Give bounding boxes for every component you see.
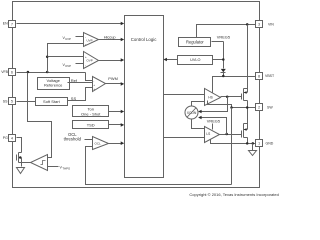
voltage reference box bbox=[38, 78, 70, 90]
svg-text:Hiccup: Hiccup bbox=[104, 34, 116, 39]
svg-text:One - Shot: One - Shot bbox=[81, 111, 101, 116]
wire SS to PWM comparator bbox=[68, 88, 93, 102]
svg-text:Regulator: Regulator bbox=[186, 39, 204, 44]
wire LS output to gate bbox=[220, 134, 242, 136]
svg-text:5: 5 bbox=[11, 99, 13, 103]
op-amp PWM comparator bbox=[93, 77, 106, 92]
svg-text:OVP: OVP bbox=[86, 59, 92, 63]
node VFB branch junction bbox=[27, 71, 30, 74]
svg-text:-: - bbox=[85, 63, 86, 67]
svg-text:GND: GND bbox=[266, 142, 274, 146]
wire XCON upper sense bbox=[198, 97, 227, 114]
svg-text:threshold: threshold bbox=[64, 136, 82, 141]
svg-text:1: 1 bbox=[258, 141, 260, 145]
soft start box bbox=[36, 98, 68, 106]
wire VTHPG label to comparator bbox=[48, 165, 71, 170]
node GND-LS source junction bbox=[246, 142, 249, 145]
svg-text:THPG: THPG bbox=[62, 167, 70, 171]
svg-text:2: 2 bbox=[258, 105, 260, 109]
wire control to HS driver bbox=[164, 94, 205, 96]
wire Hiccup UVP output to Control Logic bbox=[99, 34, 125, 41]
op-amp UVP comparator bbox=[84, 33, 99, 47]
pin GND (1) bbox=[256, 140, 274, 147]
wire riser to OVP bbox=[48, 56, 84, 58]
svg-text:4: 4 bbox=[11, 136, 13, 140]
wire SS pin to Soft Start bbox=[17, 101, 36, 103]
op-amp OCL comparator bbox=[93, 137, 109, 150]
wire VFB riser to UVP bbox=[48, 44, 84, 73]
pin PG (4) bbox=[3, 135, 16, 142]
svg-text:Copyright © 2016, Texas Instru: Copyright © 2016, Texas Instruments Inco… bbox=[189, 192, 278, 197]
node HS gate junction bbox=[226, 96, 229, 99]
svg-text:8: 8 bbox=[258, 74, 260, 78]
svg-text:PG: PG bbox=[3, 136, 8, 140]
svg-text:PWM: PWM bbox=[108, 76, 118, 81]
svg-text:VBST: VBST bbox=[265, 74, 275, 78]
node GND symbol junction bbox=[252, 142, 255, 145]
Ton one-shot box bbox=[73, 106, 109, 117]
transistor HS FET bbox=[242, 89, 248, 108]
wire PWM output to Control Logic bbox=[106, 76, 125, 86]
wire OCL to Control Logic bbox=[109, 141, 125, 145]
svg-text:VFB: VFB bbox=[1, 70, 8, 74]
svg-text:UVP: UVP bbox=[65, 37, 71, 41]
diode bootstrap bbox=[221, 69, 226, 77]
svg-text:6: 6 bbox=[11, 70, 13, 74]
node VFB riser junction bbox=[46, 71, 49, 74]
op-amp HS driver bbox=[205, 89, 221, 106]
svg-text:3: 3 bbox=[258, 22, 260, 26]
wire HS output to gate bbox=[221, 96, 242, 98]
pin VIN (3) bbox=[256, 21, 275, 28]
copyright bbox=[189, 192, 278, 197]
label VUVP bbox=[63, 36, 84, 41]
ground symbol below GND pin bbox=[249, 144, 257, 156]
node riser-OVP junction bbox=[46, 55, 49, 58]
TSD box bbox=[73, 121, 109, 129]
wire Ton to Control Logic bbox=[109, 110, 125, 114]
transistor LS FET bbox=[242, 108, 248, 144]
wire PG comparator output to FET gate bbox=[22, 162, 31, 164]
svg-text:Reference: Reference bbox=[44, 83, 63, 88]
wire VBST rail bbox=[213, 77, 256, 93]
wire XCON top to HS input bbox=[192, 102, 205, 107]
op-amp OVP comparator bbox=[84, 52, 99, 69]
pin SS (5) bbox=[3, 98, 16, 105]
svg-text:+: + bbox=[93, 87, 95, 91]
svg-text:LS: LS bbox=[206, 132, 210, 136]
wire SW sense riser down to bottom wire bbox=[231, 108, 233, 185]
IC boundary bbox=[13, 2, 260, 188]
node UVLO-VREG5 junction bbox=[222, 58, 225, 61]
wire XCON lower sense bbox=[198, 116, 226, 135]
op-amp LS driver bbox=[205, 127, 220, 143]
svg-text:OVP: OVP bbox=[65, 64, 71, 68]
wire SW line bbox=[232, 107, 256, 109]
wire UVLO to VREG5 node bbox=[213, 59, 224, 61]
regulator box bbox=[179, 38, 211, 47]
node SW-HS junction bbox=[246, 106, 249, 109]
op-amp PG comparator (VTHPG) bbox=[31, 155, 48, 171]
svg-text:VREG5: VREG5 bbox=[207, 118, 220, 123]
svg-text:EN: EN bbox=[3, 22, 8, 26]
wire PG pin to PG FET drain bbox=[17, 138, 22, 153]
wire TSD to Control Logic bbox=[109, 123, 125, 127]
pin VBST (8) bbox=[256, 73, 276, 80]
svg-text:Control Logic: Control Logic bbox=[131, 37, 157, 42]
wire VFB main bbox=[17, 73, 93, 81]
wire Ref to PWM comparator bbox=[68, 78, 93, 83]
svg-text:Soft Start: Soft Start bbox=[43, 99, 61, 104]
svg-text:XCON: XCON bbox=[187, 111, 197, 115]
label VOVP bbox=[63, 63, 84, 68]
node diode-VBST junction bbox=[222, 75, 225, 78]
wire OCL lower input from bottom sense wire bbox=[86, 147, 232, 185]
wire VIN rail down to HS FET drain bbox=[247, 25, 249, 89]
svg-text:7: 7 bbox=[11, 22, 13, 26]
svg-text:HS: HS bbox=[208, 95, 212, 99]
svg-text:SS: SS bbox=[71, 96, 77, 101]
svg-text:Ref: Ref bbox=[71, 78, 78, 83]
svg-text:UVP: UVP bbox=[87, 38, 93, 42]
pin VFB (6) bbox=[1, 69, 15, 76]
control logic box bbox=[125, 16, 164, 178]
svg-text:TSD: TSD bbox=[87, 122, 95, 127]
wire regulator output VREG5 bbox=[212, 35, 231, 69]
UVLO box bbox=[178, 56, 213, 65]
svg-text:SS: SS bbox=[3, 100, 8, 104]
pin EN (7) bbox=[3, 21, 16, 28]
wire control to LS driver bbox=[164, 137, 205, 139]
svg-text:UVLO: UVLO bbox=[190, 58, 200, 62]
svg-text:+: + bbox=[85, 42, 87, 46]
wire UVLO to Control Logic (arrow) bbox=[163, 58, 177, 62]
wire EN to Control Logic bbox=[17, 22, 125, 26]
wire VIN top to regulator riser bbox=[197, 25, 256, 38]
node LS gate junction bbox=[225, 133, 228, 136]
ground symbol below PG FET bbox=[17, 168, 25, 174]
wire OVP output to Control Logic bbox=[99, 58, 125, 62]
label VREG5 above LS driver bbox=[207, 118, 220, 129]
label OCL threshold bbox=[64, 132, 93, 142]
wire LS driver ground to GND line bbox=[211, 140, 256, 144]
wire VFB down-branch to PG comparator bbox=[28, 73, 52, 158]
svg-text:VREG5: VREG5 bbox=[217, 35, 230, 40]
svg-text:OCL: OCL bbox=[95, 142, 102, 146]
svg-text:VIN: VIN bbox=[268, 23, 274, 27]
svg-text:SW: SW bbox=[267, 106, 273, 110]
node SW sense junction bbox=[230, 106, 233, 109]
wire XCON bottom to LS input bbox=[192, 120, 205, 129]
node VIN rail junction bbox=[246, 23, 249, 26]
transistor PG FET bbox=[17, 153, 22, 167]
wire HS driver ground return to SW bbox=[208, 101, 232, 108]
circle XCON bbox=[185, 106, 198, 119]
pin SW (2) bbox=[256, 104, 274, 111]
